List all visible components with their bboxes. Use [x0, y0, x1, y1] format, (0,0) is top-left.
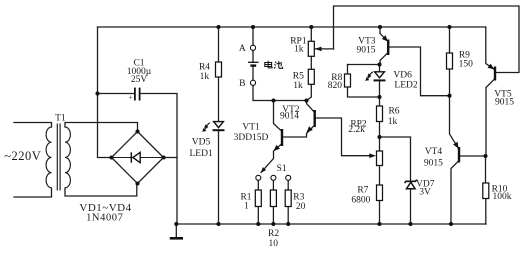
svg-text:S1: S1: [277, 164, 287, 174]
svg-text:LED2: LED2: [394, 80, 417, 90]
svg-text:R7: R7: [357, 186, 368, 196]
svg-text:9015: 9015: [495, 98, 514, 108]
svg-text:25V: 25V: [131, 75, 148, 85]
svg-text:1k: 1k: [200, 72, 210, 82]
svg-text:A: A: [239, 44, 246, 54]
svg-text:T1: T1: [55, 114, 66, 124]
svg-text:150: 150: [459, 59, 474, 69]
svg-text:10: 10: [268, 239, 278, 249]
svg-text:1k: 1k: [388, 117, 398, 127]
svg-text:R4: R4: [199, 63, 210, 73]
svg-text:3V: 3V: [419, 187, 431, 197]
svg-text:LED1: LED1: [189, 149, 212, 159]
svg-text:VT4: VT4: [425, 147, 443, 157]
svg-text:1N4007: 1N4007: [86, 213, 123, 224]
svg-text:VT1: VT1: [242, 123, 260, 133]
svg-text:R3: R3: [293, 192, 304, 202]
svg-text:+: +: [129, 93, 133, 102]
svg-text:1: 1: [244, 202, 249, 212]
svg-text:1k: 1k: [293, 81, 303, 91]
svg-text:20: 20: [296, 202, 306, 212]
svg-text:VD5: VD5: [192, 138, 211, 148]
svg-text:6800: 6800: [351, 196, 370, 206]
svg-text:VD6: VD6: [393, 70, 412, 80]
svg-text:9015: 9015: [357, 46, 376, 56]
svg-text:1k: 1k: [294, 44, 304, 54]
svg-text:R6: R6: [388, 107, 399, 117]
svg-text:9014: 9014: [280, 112, 299, 122]
svg-text:100k: 100k: [493, 192, 512, 202]
svg-text:B: B: [239, 79, 245, 89]
svg-text:3DD15D: 3DD15D: [234, 133, 269, 143]
svg-text:~220V: ~220V: [4, 149, 41, 163]
svg-text:R5: R5: [293, 71, 304, 81]
svg-text:R2: R2: [268, 229, 279, 239]
svg-text:820: 820: [328, 81, 343, 91]
svg-text:9015: 9015: [424, 159, 443, 169]
svg-text:2.2k: 2.2k: [348, 125, 365, 135]
